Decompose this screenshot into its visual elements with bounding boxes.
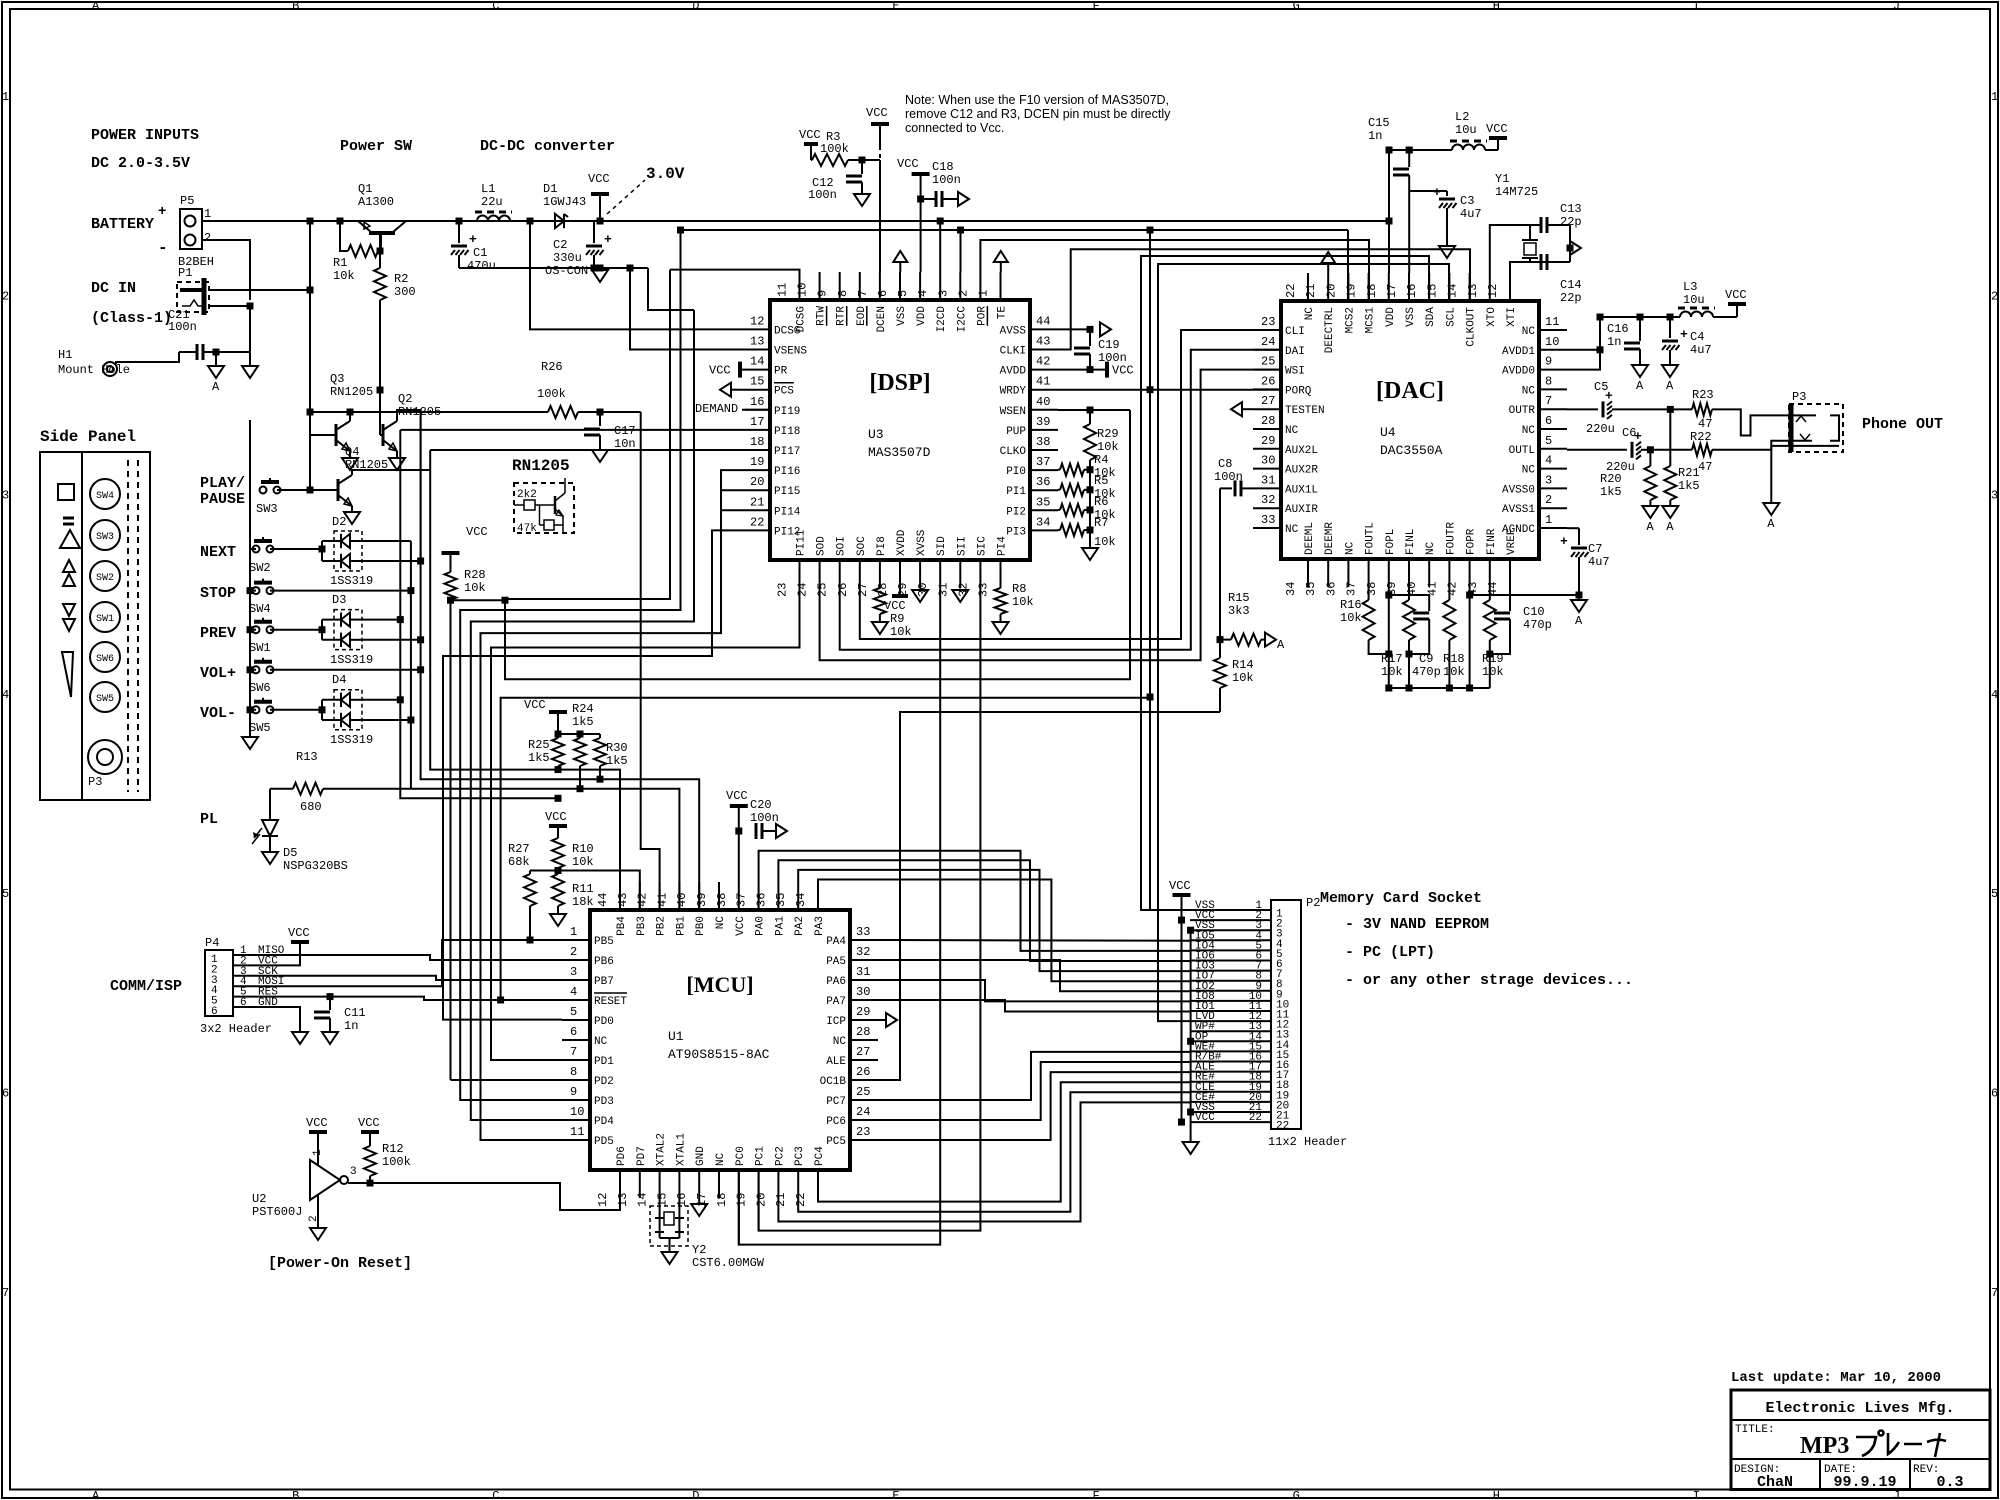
svg-text:Y1: Y1 xyxy=(1495,172,1509,186)
svg-text:39: 39 xyxy=(1036,415,1050,429)
wire VCC main rail to DAC xyxy=(600,220,1389,222)
svg-text:VCC: VCC xyxy=(1486,122,1508,136)
svg-text:C13: C13 xyxy=(1560,202,1582,216)
ground below R7 chain xyxy=(1082,548,1098,560)
ground below Q4 xyxy=(351,506,353,512)
svg-text:R5: R5 xyxy=(1094,474,1108,488)
wire PC5 to ALE xyxy=(878,1072,1190,1140)
svg-text:A: A xyxy=(1575,614,1583,628)
svg-text:19: 19 xyxy=(750,455,764,469)
svg-text:D1: D1 xyxy=(543,182,557,196)
side panel switch SW3 xyxy=(90,520,120,550)
svg-text:26: 26 xyxy=(856,1065,870,1079)
svg-text:SW1: SW1 xyxy=(96,614,114,625)
wire MCS2 down to DAC xyxy=(1347,230,1349,301)
svg-text:Q3: Q3 xyxy=(330,372,344,386)
svg-text:R24: R24 xyxy=(572,702,594,716)
svg-text:44: 44 xyxy=(1036,314,1050,328)
side panel switch SW4 xyxy=(90,479,120,509)
svg-text:I2CC: I2CC xyxy=(956,306,968,333)
wire VDD pin18 up to VCC rail xyxy=(1388,150,1390,273)
switch SW3 play xyxy=(260,487,267,494)
svg-text:VDD: VDD xyxy=(1385,307,1397,327)
svg-text:E: E xyxy=(892,1489,899,1500)
svg-text:38: 38 xyxy=(715,893,729,907)
svg-text:GND: GND xyxy=(258,997,278,1009)
svg-text:- PC (LPT): - PC (LPT) xyxy=(1345,944,1435,961)
svg-text:470p: 470p xyxy=(1523,618,1552,632)
svg-text:Power SW: Power SW xyxy=(340,138,412,155)
wire SOD pin24 to DAC WSI xyxy=(820,370,1280,661)
svg-text:POWER INPUTS: POWER INPUTS xyxy=(91,127,199,144)
LED D5 NSPG320BS xyxy=(269,789,271,820)
svg-text:-: - xyxy=(158,239,168,257)
wire D4 top to v400 xyxy=(362,699,400,701)
svg-text:28: 28 xyxy=(1261,414,1275,428)
wire WRDY pin41 to DAC PORQ xyxy=(1058,389,1280,391)
wire matrix row to PB4 xyxy=(558,770,620,910)
svg-text:FINL: FINL xyxy=(1405,529,1417,555)
svg-text:VREF: VREF xyxy=(1506,529,1518,555)
wire RES row xyxy=(290,997,562,1000)
resistor R1 10k xyxy=(340,221,348,251)
svg-text:C7: C7 xyxy=(1588,542,1602,556)
svg-text:PC3: PC3 xyxy=(794,1146,806,1166)
svg-text:SIC: SIC xyxy=(976,536,988,556)
svg-text:VCC: VCC xyxy=(588,172,610,186)
ground arrow below pin31 SII xyxy=(952,590,968,602)
svg-text:2k2: 2k2 xyxy=(517,489,537,501)
wire vsense tap x630 xyxy=(630,268,742,350)
wire PA1 staircase to IO6 xyxy=(778,860,1190,961)
VCC above L2 xyxy=(1489,136,1507,140)
svg-text:470u: 470u xyxy=(467,259,496,273)
svg-text:A: A xyxy=(92,0,100,13)
svg-text:+: + xyxy=(158,204,166,220)
svg-text:1k5: 1k5 xyxy=(1678,479,1700,493)
svg-text:RTW: RTW xyxy=(816,306,828,326)
ground A below R21 xyxy=(1662,506,1678,518)
svg-text:A1300: A1300 xyxy=(358,195,394,209)
svg-text:R1: R1 xyxy=(333,256,347,270)
svg-text:CST6.00MGW: CST6.00MGW xyxy=(692,1256,765,1270)
svg-text:15: 15 xyxy=(750,375,764,389)
svg-text:G: G xyxy=(1293,1489,1300,1500)
svg-text:C: C xyxy=(492,0,499,13)
svg-text:XVDD: XVDD xyxy=(896,529,908,556)
svg-text:15: 15 xyxy=(655,1193,669,1207)
svg-text:37: 37 xyxy=(1036,455,1050,469)
svg-text:D: D xyxy=(692,1489,699,1500)
svg-text:- 3V NAND EEPROM: - 3V NAND EEPROM xyxy=(1345,916,1489,933)
svg-text:D3: D3 xyxy=(332,593,346,607)
svg-text:470p: 470p xyxy=(1412,665,1441,679)
svg-text:NC: NC xyxy=(1304,307,1316,321)
svg-text:B: B xyxy=(292,0,299,13)
wire R28 net to PD2 xyxy=(451,1079,563,1081)
svg-text:PI16: PI16 xyxy=(774,466,800,478)
svg-text:Y2: Y2 xyxy=(692,1243,706,1257)
svg-text:18k: 18k xyxy=(572,895,594,909)
svg-text:I: I xyxy=(1693,1489,1700,1500)
wire SDA net to P2 row1 xyxy=(1141,256,1429,910)
svg-text:C2: C2 xyxy=(553,238,567,252)
wire L2 rail xyxy=(1389,149,1452,151)
svg-text:14: 14 xyxy=(750,355,764,369)
svg-text:19: 19 xyxy=(1345,284,1359,298)
switch SW4 stop xyxy=(253,587,260,594)
svg-text:A: A xyxy=(1646,520,1654,534)
svg-text:R21: R21 xyxy=(1678,466,1700,480)
svg-text:PA7: PA7 xyxy=(826,996,846,1008)
svg-text:34: 34 xyxy=(794,893,808,907)
svg-text:PI19: PI19 xyxy=(774,406,800,418)
svg-text:ALE: ALE xyxy=(826,1056,846,1068)
svg-text:PLAY/: PLAY/ xyxy=(200,475,245,492)
svg-text:3x2 Header: 3x2 Header xyxy=(200,1022,272,1036)
svg-text:NC: NC xyxy=(1522,385,1536,397)
ground below C11 xyxy=(322,1032,338,1044)
svg-text:SOD: SOD xyxy=(816,536,828,556)
svg-text:PI14: PI14 xyxy=(774,506,801,518)
svg-text:C19: C19 xyxy=(1098,338,1120,352)
arrow A ground crystal xyxy=(1570,241,1581,255)
svg-text:11x2 Header: 11x2 Header xyxy=(1268,1135,1347,1149)
svg-text:24: 24 xyxy=(1261,335,1275,349)
svg-text:NC: NC xyxy=(833,1036,847,1048)
side panel switch SW1 xyxy=(90,602,120,632)
svg-text:8: 8 xyxy=(570,1065,577,1079)
svg-text:VDD: VDD xyxy=(916,306,928,326)
svg-text:22p: 22p xyxy=(1560,291,1582,305)
svg-text:C4: C4 xyxy=(1690,330,1704,344)
svg-text:PD7: PD7 xyxy=(636,1146,648,1166)
matrix vertical v410 xyxy=(410,541,412,789)
svg-text:VSS: VSS xyxy=(1405,307,1417,327)
svg-text:D5: D5 xyxy=(283,846,297,860)
svg-text:Phone OUT: Phone OUT xyxy=(1862,416,1943,433)
svg-text:PD2: PD2 xyxy=(594,1076,614,1088)
svg-text:10k: 10k xyxy=(1443,665,1465,679)
svg-text:NC: NC xyxy=(715,1152,727,1166)
svg-text:R23: R23 xyxy=(1692,388,1714,402)
switch SW1 prev xyxy=(253,626,260,633)
ground below U2 xyxy=(317,1194,319,1228)
svg-text:VCC: VCC xyxy=(306,1116,328,1130)
svg-text:NC: NC xyxy=(1285,524,1299,536)
wire VREF pin44 to C7 node xyxy=(1510,587,1579,595)
ground arrow up VSS pin6 xyxy=(893,251,907,262)
svg-text:PB5: PB5 xyxy=(594,936,614,948)
svg-text:7: 7 xyxy=(570,1045,577,1059)
svg-text:11: 11 xyxy=(776,283,790,297)
svg-text:3: 3 xyxy=(570,965,577,979)
svg-text:VCC: VCC xyxy=(466,525,488,539)
U1 top pin stubs and names xyxy=(619,882,621,910)
svg-text:R30: R30 xyxy=(606,741,628,755)
svg-text:40: 40 xyxy=(675,893,689,907)
svg-text:H1: H1 xyxy=(58,348,72,362)
svg-text:F: F xyxy=(1093,0,1100,13)
svg-text:2: 2 xyxy=(1545,493,1552,507)
side panel icon stop square xyxy=(58,484,74,500)
svg-text:VCC: VCC xyxy=(288,926,310,940)
svg-text:C20: C20 xyxy=(750,798,772,812)
svg-text:R10: R10 xyxy=(572,842,594,856)
wire PC2 to CE# xyxy=(778,1102,1190,1221)
svg-text:VCC: VCC xyxy=(799,128,821,142)
svg-text:1k5: 1k5 xyxy=(606,754,628,768)
svg-text:PB0: PB0 xyxy=(695,916,707,936)
svg-text:43: 43 xyxy=(1036,335,1050,349)
svg-text:47k: 47k xyxy=(517,523,537,535)
ground A below C16 xyxy=(1632,365,1648,377)
svg-text:5: 5 xyxy=(570,1005,577,1019)
svg-text:100n: 100n xyxy=(750,811,779,825)
svg-text:OUTL: OUTL xyxy=(1509,445,1535,457)
svg-text:47: 47 xyxy=(1698,460,1712,474)
arrow PCS pin15 xyxy=(720,383,731,397)
svg-text:42: 42 xyxy=(1036,355,1050,369)
svg-text:38: 38 xyxy=(1365,582,1379,596)
svg-text:COMM/ISP: COMM/ISP xyxy=(110,978,182,995)
wire R29-R7 chain to ground xyxy=(1089,470,1091,530)
ground below R11 xyxy=(550,914,566,926)
ground arrow below pin29 XVSS xyxy=(912,590,928,602)
wire AVDD1 pin10 xyxy=(1567,317,1680,350)
svg-text:PREV: PREV xyxy=(200,625,236,642)
svg-text:AUXIR: AUXIR xyxy=(1285,504,1318,516)
svg-text:OC1B: OC1B xyxy=(820,1076,847,1088)
svg-text:18: 18 xyxy=(715,1193,729,1207)
svg-text:R13: R13 xyxy=(296,750,318,764)
op-amp U4 DAC DAC3550A body xyxy=(1281,301,1539,559)
svg-text:10k: 10k xyxy=(1097,440,1119,454)
svg-text:100n: 100n xyxy=(932,173,961,187)
svg-text:DCSG: DCSG xyxy=(774,325,800,337)
svg-text:14: 14 xyxy=(636,1193,650,1207)
svg-text:PB3: PB3 xyxy=(636,916,648,936)
svg-text:C17: C17 xyxy=(614,424,636,438)
node VCC 3.0V xyxy=(597,218,604,225)
svg-text:3: 3 xyxy=(1545,473,1552,487)
ground A below C21 xyxy=(208,366,224,378)
svg-text:13: 13 xyxy=(1466,284,1480,298)
svg-text:18: 18 xyxy=(750,435,764,449)
svg-text:AUX2R: AUX2R xyxy=(1285,465,1318,477)
svg-text:I2CD: I2CD xyxy=(936,306,948,333)
svg-text:15: 15 xyxy=(1425,284,1439,298)
wire Q2 collector to matrix xyxy=(397,410,421,561)
svg-text:WSI: WSI xyxy=(1285,366,1305,378)
svg-text:P3: P3 xyxy=(1792,390,1806,404)
svg-text:5: 5 xyxy=(2,887,9,901)
svg-text:4u7: 4u7 xyxy=(1460,207,1482,221)
svg-text:SW5: SW5 xyxy=(96,694,114,705)
svg-text:PC4: PC4 xyxy=(814,1146,826,1166)
resonator Y2 CST6.00MGW xyxy=(659,1198,661,1218)
svg-text:+: + xyxy=(1634,429,1642,444)
wire SOI pin25 to DAC DAI xyxy=(840,350,1280,650)
svg-text:PD3: PD3 xyxy=(594,1096,614,1108)
svg-text:L1: L1 xyxy=(481,182,495,196)
ground below Q2 xyxy=(396,451,398,458)
svg-text:R28: R28 xyxy=(464,568,486,582)
svg-text:PI3: PI3 xyxy=(1006,526,1026,538)
svg-text:VCC: VCC xyxy=(1112,364,1134,378)
op-amp U1 MCU AT90S8515 body xyxy=(590,910,850,1170)
svg-text:NC: NC xyxy=(1425,541,1437,555)
svg-text:PD4: PD4 xyxy=(594,1116,614,1128)
svg-text:24: 24 xyxy=(856,1105,870,1119)
wire AVDD0 pin9 xyxy=(1567,350,1600,370)
U3 left pin stubs and names xyxy=(742,328,770,330)
svg-text:1SS319: 1SS319 xyxy=(330,574,373,588)
svg-text:VCC: VCC xyxy=(897,157,919,171)
svg-text:D: D xyxy=(692,0,699,13)
wire PC4 to RE# xyxy=(818,1082,1190,1201)
ground A below C4 xyxy=(1662,365,1678,377)
svg-text:R20: R20 xyxy=(1600,472,1622,486)
svg-text:40: 40 xyxy=(1036,395,1050,409)
wire PI14 pin21 stub xyxy=(720,509,742,511)
svg-text:44: 44 xyxy=(596,893,610,907)
svg-text:18: 18 xyxy=(1365,284,1379,298)
svg-text:TITLE:: TITLE: xyxy=(1735,1424,1775,1436)
svg-text:VCC: VCC xyxy=(866,106,888,120)
svg-text:PI0: PI0 xyxy=(1006,466,1026,478)
ground below switch rail xyxy=(242,737,258,749)
svg-text:C15: C15 xyxy=(1368,116,1390,130)
svg-text:P2: P2 xyxy=(1306,896,1320,910)
wire matrix row R24 to PB1 xyxy=(411,789,680,910)
wire PA2 staircase to IO3 xyxy=(798,870,1190,971)
wire GND pin16 xyxy=(698,1198,700,1204)
capacitor C17 10n xyxy=(599,412,601,426)
svg-text:[MCU]: [MCU] xyxy=(686,972,753,997)
svg-text:DEECTRL: DEECTRL xyxy=(1324,307,1336,353)
wire P1 tip to junction x310 xyxy=(209,221,310,290)
side panel icon prev double-triangle xyxy=(63,604,75,616)
svg-text:21: 21 xyxy=(750,495,764,509)
svg-text:PI2: PI2 xyxy=(1006,506,1026,518)
svg-text:FOPL: FOPL xyxy=(1385,529,1397,555)
svg-text:100k: 100k xyxy=(537,387,566,401)
svg-text:+: + xyxy=(1680,327,1688,342)
svg-text:PD5: PD5 xyxy=(594,1136,614,1148)
title block box xyxy=(1731,1390,1990,1490)
svg-text:330u: 330u xyxy=(553,251,582,265)
svg-text:VCC: VCC xyxy=(524,698,546,712)
svg-text:17: 17 xyxy=(750,415,764,429)
svg-text:G: G xyxy=(1293,0,1300,13)
wire VSS pin17 to C15 node xyxy=(1408,191,1410,273)
wire PD0 feed from pin22 PI12 xyxy=(443,530,742,1019)
svg-text:B: B xyxy=(292,1489,299,1500)
svg-text:23: 23 xyxy=(776,583,790,597)
svg-text:H: H xyxy=(1493,1489,1500,1500)
U4 bottom pin stubs and names xyxy=(1307,559,1309,587)
wire PI17 pin18 to matrix xyxy=(430,449,742,451)
svg-text:35: 35 xyxy=(774,893,788,907)
svg-text:PI15: PI15 xyxy=(774,486,800,498)
svg-text:PAUSE: PAUSE xyxy=(200,491,245,508)
wire SID pin30 to PC0 xyxy=(739,588,940,1245)
svg-text:44: 44 xyxy=(1486,582,1500,596)
svg-text:PA0: PA0 xyxy=(755,916,767,936)
svg-text:Mount Hole: Mount Hole xyxy=(58,363,130,377)
svg-text:PI11: PI11 xyxy=(796,529,808,556)
svg-text:R7: R7 xyxy=(1094,516,1108,530)
wire Q1 base down xyxy=(379,232,381,251)
ground below Q3 xyxy=(349,451,351,458)
wire bottom bus under DAC left xyxy=(1389,687,1429,689)
svg-text:6: 6 xyxy=(876,290,890,297)
svg-text:R16: R16 xyxy=(1340,598,1362,612)
svg-text:NEXT: NEXT xyxy=(200,544,236,561)
svg-text:DEEMR: DEEMR xyxy=(1324,522,1336,555)
svg-text:SW1: SW1 xyxy=(249,641,271,655)
svg-text:VCC: VCC xyxy=(1169,879,1191,893)
svg-text:TE: TE xyxy=(997,306,1009,320)
svg-text:25: 25 xyxy=(816,583,830,597)
svg-text:PCS: PCS xyxy=(774,386,794,398)
svg-text:SW6: SW6 xyxy=(96,654,114,665)
svg-text:10k: 10k xyxy=(890,625,912,639)
op-amp U3 DSP MAS3507D body xyxy=(770,300,1030,560)
svg-text:2: 2 xyxy=(204,231,211,245)
wire MOSI to PB5 xyxy=(290,940,562,986)
U3 right pin stubs and names xyxy=(1030,328,1058,330)
svg-text:STOP: STOP xyxy=(200,585,236,602)
svg-text:- or any other strage devices.: - or any other strage devices... xyxy=(1345,972,1633,989)
svg-text:5: 5 xyxy=(896,290,910,297)
svg-text:300: 300 xyxy=(394,285,416,299)
side panel switch SW2 xyxy=(90,561,120,591)
svg-text:PORQ: PORQ xyxy=(1285,385,1312,397)
svg-text:10u: 10u xyxy=(1455,123,1477,137)
svg-text:C11: C11 xyxy=(344,1006,366,1020)
svg-text:10k: 10k xyxy=(572,855,594,869)
svg-text:1n: 1n xyxy=(344,1019,358,1033)
vertical trunk v2 x670 xyxy=(505,270,670,599)
wire DCSG pin12 from battery rail xyxy=(530,221,742,329)
svg-text:A: A xyxy=(1666,379,1674,393)
wire D3 bottom to v420 xyxy=(362,639,421,641)
svg-text:8: 8 xyxy=(836,290,850,297)
wire SOC pin26 to DAC CLI xyxy=(860,330,1280,639)
svg-text:4: 4 xyxy=(1545,454,1552,468)
wire PR pin14 VCC tick xyxy=(738,362,742,378)
svg-text:68k: 68k xyxy=(508,855,530,869)
wire WSEN bus down-left xyxy=(505,410,1130,679)
svg-text:27: 27 xyxy=(1261,394,1275,408)
wire PA5 to IO2 xyxy=(878,960,1190,991)
svg-text:AVSS1: AVSS1 xyxy=(1502,504,1535,516)
side panel icon volume wedge xyxy=(62,652,73,697)
svg-text:PI1: PI1 xyxy=(1006,486,1026,498)
svg-text:CLKOUT: CLKOUT xyxy=(1466,307,1478,347)
wire Q4 collector up xyxy=(352,470,430,475)
svg-text:43: 43 xyxy=(616,893,630,907)
wire CLKI pin43 to CLKOUT xyxy=(1058,249,1470,349)
wire POR pin2 up xyxy=(980,240,1369,301)
svg-text:MCS1: MCS1 xyxy=(1365,307,1377,334)
svg-text:VCC: VCC xyxy=(884,599,906,613)
svg-text:[DSP]: [DSP] xyxy=(869,370,930,396)
wire R28 junction line xyxy=(451,599,506,601)
svg-text:Last update: Mar 10, 2000: Last update: Mar 10, 2000 xyxy=(1731,1370,1941,1386)
